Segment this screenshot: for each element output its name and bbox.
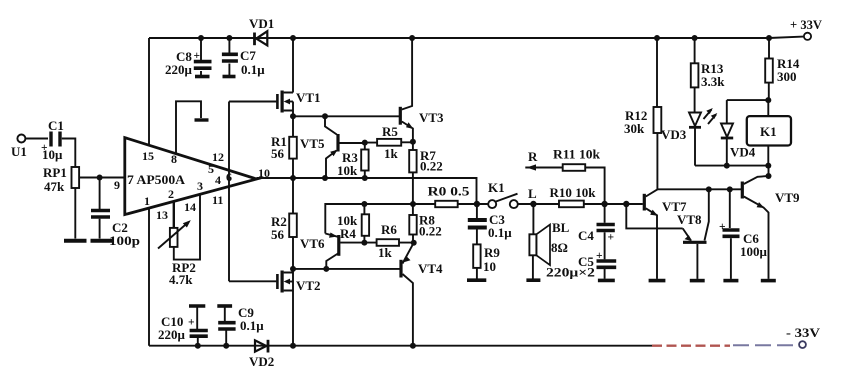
node line B junctions (361, 201, 367, 207)
transistor VT7 (644, 189, 687, 279)
node VT1 drain junction (290, 113, 296, 119)
resistor R10 (550, 185, 597, 207)
wire VT1 drain line to VT3 base (293, 115, 399, 117)
svg-text:0.1μ: 0.1μ (488, 225, 512, 240)
svg-text:8Ω: 8Ω (551, 240, 568, 255)
svg-text:C7: C7 (240, 48, 256, 63)
resistor R14 (765, 38, 800, 100)
svg-text:R6: R6 (381, 222, 397, 237)
svg-text:3.3k: 3.3k (701, 74, 725, 89)
svg-text:9: 9 (114, 178, 120, 192)
capacitor C10 (158, 306, 208, 346)
transistor VT8 (626, 189, 709, 279)
wire top rail (149, 37, 803, 38)
svg-text:0.1μ: 0.1μ (241, 62, 265, 77)
resistor R4 (337, 204, 369, 243)
wire RP2 bottom to pin 14 (174, 194, 200, 259)
svg-text:VD4: VD4 (730, 145, 756, 160)
diode VD4 (721, 100, 756, 166)
svg-text:1: 1 (144, 194, 150, 208)
svg-text:- 33V: - 33V (786, 325, 821, 340)
svg-text:+: + (608, 232, 615, 244)
resistor R13 (691, 38, 725, 112)
svg-text:15: 15 (142, 149, 154, 163)
svg-text:BL: BL (552, 220, 570, 235)
svg-text:VT9: VT9 (775, 190, 800, 205)
svg-text:VT4: VT4 (418, 261, 443, 276)
svg-text:VT6: VT6 (300, 236, 325, 251)
svg-text:VD2: VD2 (249, 354, 274, 369)
transistor VT1 (MOSFET) (229, 38, 321, 116)
svg-text:R: R (528, 149, 538, 164)
node R8 bottom junction (411, 240, 417, 246)
svg-text:14: 14 (184, 200, 196, 214)
node R3 top junction (362, 140, 368, 146)
svg-text:4.7k: 4.7k (169, 272, 193, 287)
svg-text:30k: 30k (624, 121, 645, 136)
diode VD1 (255, 31, 268, 45)
svg-text:3: 3 (197, 179, 203, 193)
ground VT8 (690, 279, 705, 283)
svg-text:5: 5 (208, 162, 214, 176)
svg-text:VT1: VT1 (296, 90, 321, 105)
wire R channel sense line (525, 167, 562, 169)
svg-text:VT5: VT5 (300, 136, 325, 151)
wire VT7 collector line to VT9 base (657, 188, 741, 190)
switch K1 contact (488, 180, 518, 208)
wire C1 to RP1 (62, 139, 76, 168)
svg-text:U1: U1 (11, 144, 27, 159)
transistor VT4 (401, 243, 443, 346)
ground C6 (723, 279, 738, 283)
ground VT7 (649, 279, 666, 283)
wire VD4 top to R14 node (727, 99, 769, 101)
capacitor C1 (41, 118, 64, 162)
svg-text:0.1μ: 0.1μ (240, 318, 264, 333)
node R4 bottom junction (361, 240, 367, 246)
transistor VT5 (300, 116, 365, 178)
resistor R1 (271, 116, 297, 178)
svg-text:R4: R4 (340, 226, 356, 241)
node wiper/C2 junction (97, 175, 103, 181)
svg-text:R10 10k: R10 10k (550, 185, 597, 200)
ground C4/C5 (598, 279, 615, 283)
node -33V terminal (799, 341, 806, 348)
transistor VT6 (300, 233, 364, 269)
speaker BL (529, 204, 569, 279)
svg-text:L: L (528, 186, 537, 201)
wire RP1 wiper to op-amp pin 9 (79, 177, 125, 179)
svg-text:4: 4 (215, 173, 221, 187)
svg-text:+: + (188, 317, 195, 329)
resistor R9 (473, 244, 500, 278)
svg-text:+: + (41, 142, 48, 154)
wire pin 15 from top rail (148, 38, 150, 145)
svg-text:VT8: VT8 (677, 212, 702, 227)
svg-text:1k: 1k (384, 146, 399, 161)
svg-text:56: 56 (271, 227, 285, 242)
wire VD3 bottom to node B (695, 165, 768, 167)
transistor VT2 (MOSFET) (229, 269, 321, 346)
node VT2 top junction (290, 266, 296, 272)
svg-text:VD3: VD3 (661, 127, 687, 142)
svg-text:2: 2 (168, 187, 174, 201)
wire pin 12 / pin 11 column (228, 102, 230, 282)
node VT5 collector junction (322, 113, 328, 119)
transistor VT3 (400, 38, 444, 142)
wire RP1 bottom to ground (74, 188, 76, 239)
relay K1 coil (747, 100, 791, 166)
ground C8 (195, 75, 210, 79)
wire bottom rail left segment (149, 345, 652, 347)
svg-text:R9: R9 (484, 245, 500, 260)
svg-text:K1: K1 (488, 180, 505, 195)
wire input to C1 (25, 138, 48, 140)
resistor R3 (337, 143, 369, 178)
node +33V terminal (804, 33, 811, 40)
capacitor C7 (222, 38, 265, 77)
node bottom rail junctions (195, 343, 201, 349)
svg-text:C5: C5 (578, 254, 594, 269)
node VT6 emitter junction (323, 266, 329, 272)
resistor R6 (364, 222, 413, 260)
ground C2 (91, 239, 113, 243)
resistor R8 (409, 213, 441, 243)
svg-text:+: + (194, 50, 201, 62)
node U1 input terminal (17, 135, 25, 143)
capacitor C4 (578, 204, 615, 259)
node VT3 emitter junction (410, 139, 416, 145)
svg-text:56: 56 (271, 146, 285, 161)
wire pin 1 to bottom rail (148, 208, 150, 346)
ground VT9 (761, 279, 776, 283)
capacitor C9 (217, 305, 264, 346)
wire bottom rail red dashed segment (652, 345, 730, 347)
resistor R2 (271, 178, 297, 269)
svg-text:13: 13 (156, 208, 168, 222)
capacitor C6 (719, 189, 768, 279)
resistor R11 (553, 147, 605, 205)
svg-text:10: 10 (483, 259, 496, 274)
svg-text:C1: C1 (48, 118, 64, 133)
ground C7 (223, 75, 236, 79)
diode VD2 (255, 340, 268, 353)
node line A junctions (290, 175, 296, 181)
svg-text:+ 33V: + 33V (790, 17, 823, 32)
svg-text:+: + (596, 250, 603, 262)
potentiometer RP2 (158, 220, 196, 287)
resistor R7 (409, 142, 443, 215)
ground pin 8 (195, 118, 209, 121)
wire bottom rail blue dashed segment (733, 344, 798, 346)
svg-text:100p: 100p (109, 233, 140, 248)
ground BL (526, 278, 540, 282)
svg-text:+: + (719, 221, 726, 233)
diode VD3 (LED) (661, 108, 717, 166)
transistor VT9 (742, 166, 800, 279)
svg-text:300: 300 (777, 69, 797, 84)
wire VT2 drain line to VT4 base (293, 268, 400, 270)
resistor R0 (428, 184, 471, 208)
capacitor C2 (91, 178, 140, 249)
wire pin 8 to ground (176, 101, 201, 154)
wire line B (VT6 collector bracket to VT7) (325, 204, 435, 234)
svg-text:C4: C4 (578, 228, 594, 243)
wire pin 2 stem to RP2 (173, 201, 175, 228)
resistor R12 (624, 38, 661, 189)
svg-text:7 AP500A: 7 AP500A (127, 172, 186, 187)
svg-text:0.22: 0.22 (419, 224, 442, 239)
node top rail junctions (198, 35, 204, 41)
svg-text:11: 11 (212, 193, 223, 207)
svg-text:RP1: RP1 (43, 165, 67, 180)
svg-text:0.22: 0.22 (420, 159, 443, 174)
wire output node 10 line A (257, 178, 477, 204)
svg-text:VT3: VT3 (419, 110, 444, 125)
resistor R5 (365, 124, 413, 161)
svg-text:VD1: VD1 (249, 16, 274, 31)
svg-text:1k: 1k (378, 245, 393, 260)
svg-text:8: 8 (171, 152, 177, 166)
svg-text:K1: K1 (760, 124, 777, 139)
svg-text:47k: 47k (44, 179, 65, 194)
svg-text:VT2: VT2 (296, 278, 321, 293)
svg-text:100μ: 100μ (740, 244, 768, 259)
ground C3/R9 (467, 278, 486, 282)
capacitor C5 (578, 250, 616, 279)
capacitor C3 (468, 204, 512, 244)
svg-text:R0 0.5: R0 0.5 (428, 184, 471, 199)
svg-text:R11 10k: R11 10k (553, 147, 601, 162)
capacitor C8 (165, 38, 212, 77)
svg-text:R5: R5 (382, 124, 398, 139)
svg-text:10k: 10k (337, 163, 358, 178)
potentiometer RP1 (43, 165, 79, 194)
ground RP1 (64, 239, 87, 243)
svg-text:220μ: 220μ (165, 62, 193, 77)
op-amp U (7 AP500A) (114, 138, 270, 222)
svg-text:220μ: 220μ (158, 327, 186, 342)
